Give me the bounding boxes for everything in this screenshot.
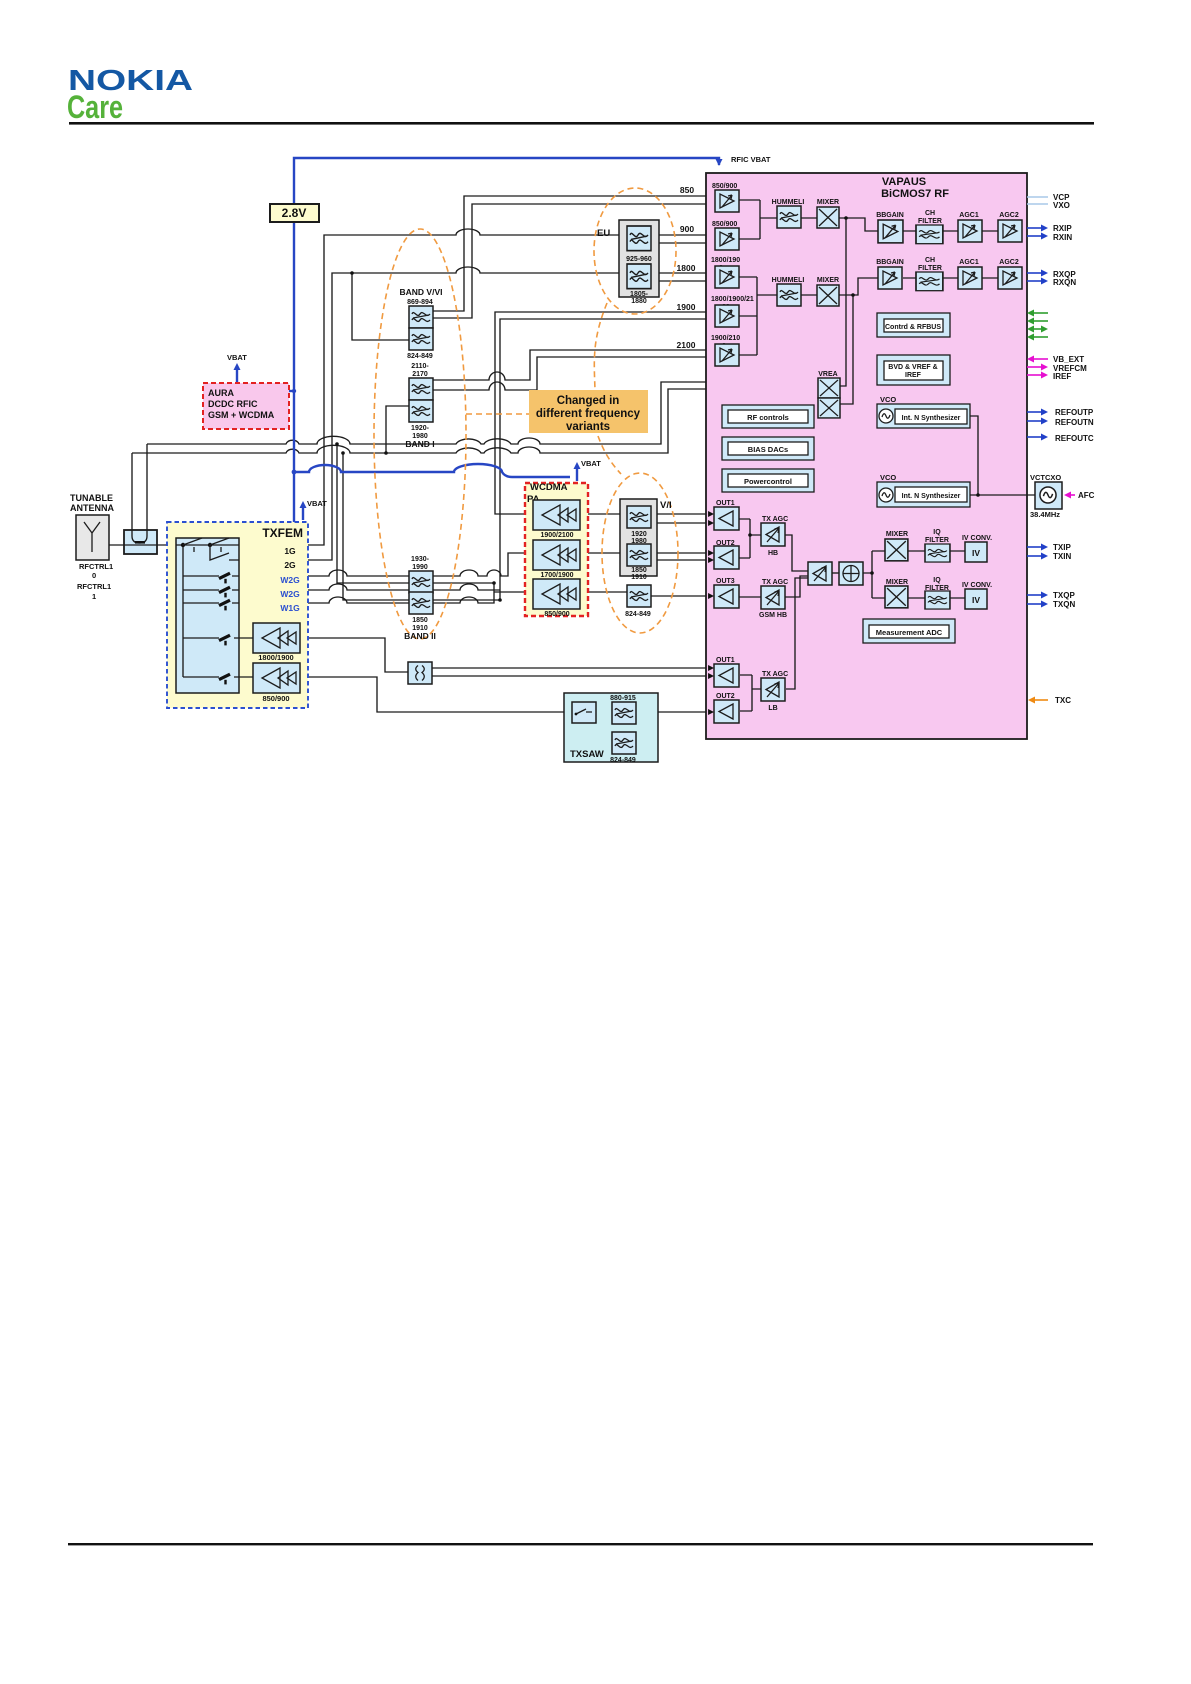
input arrow A2 bbox=[708, 520, 714, 526]
filter 1850-1910 tx bbox=[627, 544, 651, 566]
svg-text:LB: LB bbox=[768, 705, 777, 712]
junction J7 bbox=[844, 216, 848, 220]
junction dots bbox=[335, 216, 980, 602]
wire band56 in bbox=[352, 273, 409, 340]
svg-text:VBAT: VBAT bbox=[307, 499, 327, 508]
svg-text:1800: 1800 bbox=[677, 263, 696, 273]
svg-text:REFOUTC: REFOUTC bbox=[1055, 434, 1094, 443]
svg-text:Int. N Synthesizer: Int. N Synthesizer bbox=[902, 493, 961, 500]
VBAT arrow TXFEM bbox=[302, 508, 304, 520]
svg-text:38.4MHz: 38.4MHz bbox=[1030, 510, 1060, 519]
svg-text:824-849: 824-849 bbox=[625, 611, 651, 618]
transformer balun bbox=[408, 662, 432, 684]
wire antenna line bbox=[109, 544, 176, 546]
filter 1920-1980 tx bbox=[627, 506, 651, 528]
svg-text:925-960: 925-960 bbox=[626, 256, 652, 263]
svg-text:W1G: W1G bbox=[280, 603, 300, 613]
junction J11 bbox=[870, 571, 874, 575]
svg-text:1805-: 1805- bbox=[630, 291, 649, 298]
IC VAPAUS BiCMOS7 RF bbox=[706, 173, 1027, 739]
wcdma PA 1900/2100 bbox=[533, 500, 580, 530]
svg-text:1850: 1850 bbox=[412, 617, 428, 624]
wire mix2 to bb2 bbox=[839, 278, 878, 295]
wire transformer out a bbox=[432, 667, 714, 669]
VBAT arrow AURA bbox=[236, 370, 238, 383]
svg-text:REFOUTP: REFOUTP bbox=[1055, 408, 1094, 417]
wire band2 out a bbox=[431, 582, 494, 584]
footer rule bbox=[68, 1543, 1093, 1545]
VB_EXT arrow bbox=[1034, 358, 1048, 360]
TXFEM module bbox=[167, 522, 308, 708]
VXO line bbox=[1027, 203, 1048, 205]
filter band2 b bbox=[409, 592, 433, 614]
svg-text:MIXER: MIXER bbox=[817, 277, 839, 284]
svg-text:CH: CH bbox=[925, 210, 935, 217]
RF controls box bbox=[722, 405, 814, 428]
wire transformer out b bbox=[432, 675, 714, 677]
txfem PA 850/900 bbox=[253, 663, 300, 693]
svg-text:1800/190: 1800/190 bbox=[711, 257, 740, 264]
svg-text:IREF: IREF bbox=[1053, 372, 1071, 381]
VCP line bbox=[1027, 196, 1048, 198]
svg-text:AFC: AFC bbox=[1078, 491, 1095, 500]
svg-text:REFOUTN: REFOUTN bbox=[1055, 418, 1094, 427]
wire 1800 row b bbox=[659, 280, 715, 282]
svg-text:1700/1900: 1700/1900 bbox=[540, 572, 573, 579]
switch bus bbox=[176, 545, 253, 677]
svg-text:RXIN: RXIN bbox=[1053, 233, 1072, 242]
svg-text:IV: IV bbox=[972, 548, 980, 558]
svg-text:IV: IV bbox=[972, 595, 980, 605]
svg-text:MIXER: MIXER bbox=[817, 199, 839, 206]
svg-text:824-849: 824-849 bbox=[610, 757, 636, 764]
svg-text:1930-: 1930- bbox=[411, 556, 430, 563]
junction J10 bbox=[748, 533, 752, 537]
REFOUTC arrow bbox=[1027, 436, 1041, 438]
txsaw switch bbox=[572, 702, 596, 723]
wire VI f3 out bbox=[650, 595, 714, 597]
REFOUTN arrow bbox=[1027, 420, 1041, 422]
wire 1900 row b vertical bbox=[500, 319, 715, 600]
input arrow A7 bbox=[708, 673, 714, 679]
svg-text:TX AGC: TX AGC bbox=[762, 516, 788, 523]
svg-text:850/900: 850/900 bbox=[544, 611, 569, 618]
svg-text:TXQN: TXQN bbox=[1053, 600, 1075, 609]
svg-text:BAND II: BAND II bbox=[404, 631, 436, 641]
TX sum node bbox=[839, 562, 863, 585]
svg-text:EU: EU bbox=[597, 228, 610, 239]
wire txfem amp1 out to transformer bbox=[299, 638, 408, 672]
wire rx1 chain bbox=[903, 230, 998, 232]
svg-text:AURA: AURA bbox=[208, 388, 234, 398]
svg-text:VCO: VCO bbox=[880, 395, 896, 404]
svg-text:OUT3: OUT3 bbox=[716, 578, 735, 585]
RFIC VBAT wire bbox=[294, 158, 719, 522]
wire amp3 in bbox=[494, 591, 533, 593]
svg-text:VB_EXT: VB_EXT bbox=[1053, 355, 1084, 364]
svg-text:BAND V/VI: BAND V/VI bbox=[400, 287, 443, 297]
svg-text:RXIP: RXIP bbox=[1053, 224, 1072, 233]
junction J1 bbox=[335, 442, 339, 446]
filter 925-960 bbox=[627, 226, 651, 251]
wire 2G to 1800 row bbox=[230, 267, 715, 560]
svg-text:1880: 1880 bbox=[631, 298, 647, 305]
filter 2110-2170 bbox=[409, 378, 433, 400]
svg-text:Int. N Synthesizer: Int. N Synthesizer bbox=[902, 415, 961, 422]
svg-text:2.8V: 2.8V bbox=[282, 206, 307, 220]
wire band1 in bbox=[386, 406, 409, 453]
svg-text:GSM HB: GSM HB bbox=[759, 612, 787, 619]
txfem PA 1800/1900 bbox=[253, 623, 300, 653]
filter band2 a bbox=[409, 571, 433, 593]
filter 824-849 saw bbox=[612, 732, 636, 754]
wire vco link bbox=[970, 416, 1035, 495]
svg-text:CH: CH bbox=[925, 257, 935, 264]
switch 1G bbox=[181, 543, 185, 547]
filter 880-915 bbox=[612, 702, 636, 724]
svg-text:1910: 1910 bbox=[631, 574, 647, 581]
svg-text:MIXER: MIXER bbox=[886, 531, 908, 538]
svg-text:W2G: W2G bbox=[280, 575, 300, 585]
junction J2 bbox=[341, 451, 345, 455]
switch W2G b bbox=[219, 587, 230, 597]
wcdma PA 850/900 bbox=[533, 579, 580, 609]
svg-text:1920: 1920 bbox=[631, 531, 647, 538]
changed in variants note bbox=[529, 390, 648, 433]
wire txfem amp2 out to txsaw bbox=[299, 677, 572, 712]
TXC arrow bbox=[1035, 699, 1048, 701]
svg-text:GSM + WCDMA: GSM + WCDMA bbox=[208, 410, 275, 420]
svg-text:900: 900 bbox=[680, 224, 694, 234]
svg-text:1: 1 bbox=[92, 592, 96, 601]
svg-text:DCDC RFIC: DCDC RFIC bbox=[208, 399, 258, 409]
svg-text:869-894: 869-894 bbox=[407, 299, 433, 306]
svg-text:Powercontrol: Powercontrol bbox=[744, 477, 792, 486]
svg-text:VBAT: VBAT bbox=[227, 353, 247, 362]
svg-text:AGC2: AGC2 bbox=[999, 212, 1019, 219]
svg-text:HB: HB bbox=[768, 550, 778, 557]
svg-text:RXQN: RXQN bbox=[1053, 278, 1076, 287]
svg-text:TX AGC: TX AGC bbox=[762, 579, 788, 586]
svg-text:824-849: 824-849 bbox=[407, 353, 433, 360]
filter 869-894 bbox=[409, 306, 433, 328]
wire band2 in a bbox=[337, 444, 409, 583]
svg-text:FILTER: FILTER bbox=[918, 218, 942, 225]
svg-text:FILTER: FILTER bbox=[925, 537, 949, 544]
svg-text:IV CONV.: IV CONV. bbox=[962, 535, 992, 542]
wire W1G row bbox=[239, 583, 494, 603]
TXIP arrow bbox=[1027, 546, 1041, 548]
svg-text:HUMMELI: HUMMELI bbox=[772, 277, 805, 284]
svg-text:2100: 2100 bbox=[677, 340, 696, 350]
header rule bbox=[69, 122, 1094, 125]
svg-text:1900/2100: 1900/2100 bbox=[540, 532, 573, 539]
IREF arrow bbox=[1027, 374, 1041, 376]
svg-text:850: 850 bbox=[680, 185, 694, 195]
wire VI f2 out b bbox=[651, 559, 714, 561]
input arrow A5 bbox=[708, 593, 714, 599]
svg-text:Measurement ADC: Measurement ADC bbox=[876, 628, 943, 637]
svg-text:TX AGC: TX AGC bbox=[762, 671, 788, 678]
svg-text:OUT2: OUT2 bbox=[716, 693, 735, 700]
switch GSM LB bbox=[219, 674, 230, 684]
wire W2G row2 bbox=[239, 584, 500, 590]
svg-text:TXIN: TXIN bbox=[1053, 552, 1071, 561]
svg-text:OUT1: OUT1 bbox=[716, 500, 735, 507]
svg-text:1850: 1850 bbox=[631, 567, 647, 574]
BIAS DACs box bbox=[722, 437, 814, 460]
svg-text:TUNABLE: TUNABLE bbox=[70, 493, 113, 503]
green bus arrows bbox=[1034, 312, 1048, 314]
svg-text:BAND I: BAND I bbox=[405, 439, 434, 449]
wire txsaw out bbox=[635, 711, 714, 713]
wire hum1-mix1 bbox=[800, 217, 817, 219]
svg-text:1800/1900: 1800/1900 bbox=[258, 653, 293, 662]
blue junction dot bbox=[292, 470, 297, 475]
svg-text:RFCTRL1: RFCTRL1 bbox=[79, 562, 113, 571]
wire mix1 to bb1 bbox=[839, 218, 878, 231]
svg-text:BBGAIN: BBGAIN bbox=[876, 212, 904, 219]
wire lowout merge bbox=[740, 675, 761, 711]
TX driver amp bbox=[808, 562, 832, 585]
svg-text:2170: 2170 bbox=[412, 371, 428, 378]
Control RFBUS box bbox=[877, 313, 950, 337]
ellipse band variants left bbox=[374, 229, 466, 639]
svg-text:Contrd & RFBUS: Contrd & RFBUS bbox=[885, 324, 941, 331]
input arrowheads bbox=[708, 511, 714, 715]
wire 850 row b bbox=[432, 204, 715, 318]
TXFEM switch box bbox=[176, 538, 239, 693]
svg-text:880-915: 880-915 bbox=[610, 695, 636, 702]
VREFCM arrow bbox=[1027, 366, 1041, 368]
switch 2G bbox=[208, 543, 212, 547]
svg-text:1G: 1G bbox=[284, 546, 296, 556]
input arrow A3 bbox=[708, 550, 714, 556]
svg-text:variants: variants bbox=[566, 421, 610, 433]
svg-text:TXFEM: TXFEM bbox=[262, 526, 303, 540]
wire txsaw inner bbox=[584, 723, 612, 743]
svg-text:TXC: TXC bbox=[1055, 696, 1071, 705]
wire txsaw switch to filt bbox=[596, 711, 612, 713]
wire txsaw filtD link bbox=[635, 713, 648, 743]
input arrow A8 bbox=[708, 709, 714, 715]
svg-text:VREA: VREA bbox=[818, 371, 837, 378]
AURA stub bbox=[289, 390, 294, 392]
wire lna345 merge bbox=[738, 277, 777, 355]
svg-text:TXQP: TXQP bbox=[1053, 591, 1075, 600]
svg-text:BIAS DACs: BIAS DACs bbox=[748, 445, 788, 454]
svg-text:OUT1: OUT1 bbox=[716, 657, 735, 664]
svg-text:BBGAIN: BBGAIN bbox=[876, 259, 904, 266]
wire 2100 row b bbox=[431, 357, 715, 390]
dashed connector curve bbox=[594, 303, 621, 474]
ellipse EU bbox=[594, 188, 676, 314]
input arrow A6 bbox=[708, 665, 714, 671]
wire hum2-mix2 bbox=[800, 294, 817, 296]
svg-text:IV CONV.: IV CONV. bbox=[962, 582, 992, 589]
TXQN arrow bbox=[1027, 603, 1041, 605]
svg-text:1800/1900/21: 1800/1900/21 bbox=[711, 296, 754, 303]
wire band2 out b bbox=[431, 599, 500, 601]
svg-text:1900/210: 1900/210 bbox=[711, 335, 740, 342]
ellipse V/I bbox=[602, 473, 678, 633]
VBAT arrow WCDMA bbox=[576, 469, 578, 481]
svg-text:2G: 2G bbox=[284, 560, 296, 570]
junction J9 bbox=[976, 493, 980, 497]
wire coupler vert b bbox=[131, 453, 133, 538]
svg-text:BVD & VREF &: BVD & VREF & bbox=[888, 364, 937, 371]
svg-text:1990: 1990 bbox=[412, 564, 428, 571]
wcdma PA 1700/1900 bbox=[533, 540, 580, 570]
dashed connector left bbox=[466, 413, 529, 415]
svg-text:Changed in: Changed in bbox=[557, 395, 620, 407]
svg-text:Care: Care bbox=[67, 89, 123, 125]
RXIN arrow bbox=[1027, 235, 1041, 237]
filter 1920-1980 bbox=[409, 400, 433, 422]
switch GSM HB bbox=[219, 635, 230, 645]
RXIP arrow bbox=[1027, 227, 1041, 229]
wire 850 row a bbox=[432, 196, 715, 311]
switch W2G a bbox=[219, 573, 230, 583]
svg-text:850/900: 850/900 bbox=[262, 694, 289, 703]
wire wcdma amp3 out bbox=[580, 591, 627, 593]
svg-text:VAPAUS: VAPAUS bbox=[882, 176, 926, 188]
wire coupler vert a bbox=[146, 444, 148, 538]
wire rx feed a bbox=[147, 382, 818, 444]
wire drv-sum bbox=[832, 572, 839, 574]
svg-text:VBAT: VBAT bbox=[581, 459, 601, 468]
wire band2 in b bbox=[343, 453, 409, 600]
svg-text:VCO: VCO bbox=[880, 473, 896, 482]
wire VI f2 out bbox=[651, 552, 714, 554]
Measurement ADC box bbox=[863, 619, 955, 643]
svg-text:1900: 1900 bbox=[677, 302, 696, 312]
wire 1G to 900 row bbox=[239, 229, 715, 545]
TXQP arrow bbox=[1027, 594, 1041, 596]
svg-text:VCTCXO: VCTCXO bbox=[1030, 473, 1061, 482]
wire out12 merge bbox=[739, 519, 761, 558]
svg-text:IQ: IQ bbox=[933, 577, 941, 584]
Powercontrol box bbox=[722, 469, 814, 492]
wire W2G row1 bbox=[239, 553, 533, 576]
svg-text:IREF: IREF bbox=[905, 372, 922, 379]
wire txmix chains bbox=[908, 551, 965, 598]
junction J8 bbox=[851, 293, 855, 297]
svg-text:RFCTRL1: RFCTRL1 bbox=[77, 582, 111, 591]
filter 1805-1880 bbox=[627, 264, 651, 289]
2.8V supply box bbox=[270, 204, 319, 222]
svg-text:V/I: V/I bbox=[660, 500, 672, 511]
wire agcgsm to drv bbox=[785, 576, 808, 597]
svg-text:RF controls: RF controls bbox=[747, 413, 789, 422]
svg-text:WCDMA: WCDMA bbox=[530, 482, 568, 493]
svg-text:AGC1: AGC1 bbox=[959, 259, 979, 266]
wire 900 row b bbox=[659, 242, 715, 244]
wire mix1 to vrea bbox=[840, 218, 846, 386]
junction J5 bbox=[492, 581, 496, 585]
svg-text:AGC1: AGC1 bbox=[959, 212, 979, 219]
REFOUTP arrow bbox=[1027, 411, 1041, 413]
input arrow A4 bbox=[708, 557, 714, 563]
AFC arrow bbox=[1070, 494, 1075, 496]
RXQN arrow bbox=[1027, 280, 1041, 282]
antenna box bbox=[76, 515, 109, 560]
BVD VREF IREF box bbox=[877, 355, 950, 385]
filter 824-849 tx bbox=[627, 585, 651, 607]
wire 2100 row a bbox=[431, 350, 715, 380]
wire agchb to drv bbox=[785, 535, 808, 571]
AURA DCDC RFIC block bbox=[203, 383, 289, 429]
wire wcdma amp1 out bbox=[580, 513, 627, 515]
svg-text:850/900: 850/900 bbox=[712, 183, 737, 190]
interior wires bbox=[738, 200, 1035, 711]
RXQP arrow bbox=[1027, 272, 1041, 274]
row frequency labels bbox=[677, 185, 696, 350]
wire wcdma amp2 out bbox=[580, 552, 627, 554]
input arrow A1 bbox=[708, 511, 714, 517]
wire agclb to drv bbox=[786, 578, 808, 689]
svg-text:W2G: W2G bbox=[280, 589, 300, 599]
antenna coupler bbox=[124, 530, 157, 554]
junction J6 bbox=[498, 598, 502, 602]
svg-text:HUMMELI: HUMMELI bbox=[772, 199, 805, 206]
wire rx feed b bbox=[132, 389, 818, 453]
svg-text:RFIC VBAT: RFIC VBAT bbox=[731, 155, 771, 164]
svg-text:0: 0 bbox=[92, 571, 96, 580]
svg-text:TXIP: TXIP bbox=[1053, 543, 1071, 552]
svg-text:MIXER: MIXER bbox=[886, 579, 908, 586]
filter 824-849 bbox=[409, 328, 433, 350]
svg-text:FILTER: FILTER bbox=[918, 265, 942, 272]
svg-text:1920-: 1920- bbox=[411, 425, 430, 432]
junction J3 bbox=[384, 451, 388, 455]
wire VI f1 out bbox=[651, 513, 714, 515]
svg-text:IQ: IQ bbox=[933, 529, 941, 536]
TXIN arrow bbox=[1027, 555, 1041, 557]
wire sum split bbox=[863, 551, 885, 598]
wire out3 to agcgsm bbox=[739, 596, 761, 598]
svg-text:AGC2: AGC2 bbox=[999, 259, 1019, 266]
svg-text:BiCMOS7 RF: BiCMOS7 RF bbox=[881, 188, 949, 200]
wire rx2 chain bbox=[903, 277, 998, 279]
junction J4 bbox=[350, 271, 354, 275]
right edge labels bbox=[1053, 193, 1095, 705]
wire mix2 to vrea2 bbox=[840, 295, 853, 404]
svg-text:850/900: 850/900 bbox=[712, 221, 737, 228]
svg-text:TXSAW: TXSAW bbox=[570, 749, 604, 760]
wire lna12 merge bbox=[739, 200, 777, 239]
svg-text:different frequency: different frequency bbox=[536, 408, 641, 420]
svg-text:VXO: VXO bbox=[1053, 201, 1070, 210]
wire VI f1 out b bbox=[651, 522, 714, 524]
svg-text:ANTENNA: ANTENNA bbox=[70, 503, 114, 513]
switch W1G bbox=[219, 600, 230, 610]
svg-text:2110-: 2110- bbox=[411, 363, 429, 370]
wire 1900 row a to WCDMA amp1 bbox=[495, 312, 715, 514]
